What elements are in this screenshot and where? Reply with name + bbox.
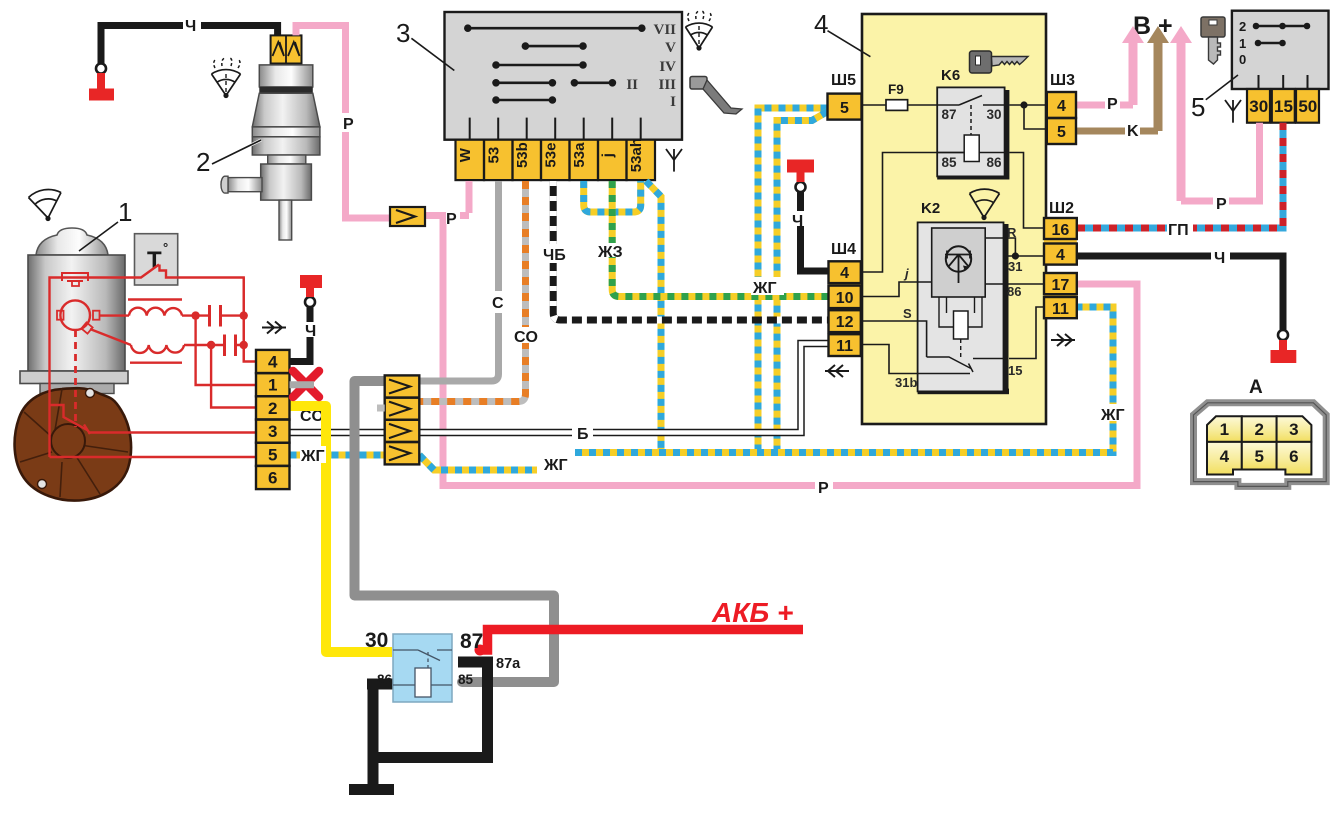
- svg-text:15: 15: [1008, 363, 1022, 378]
- wiper motor gearbox housing (brown): [15, 388, 132, 500]
- label B wire: [572, 426, 593, 439]
- svg-text:15: 15: [1274, 97, 1293, 116]
- mounting block 4 body: [862, 14, 1046, 424]
- svg-text:АКБ +: АКБ +: [711, 597, 793, 628]
- wire: K6 30 to Sh3 pins with junction: [1009, 105, 1047, 129]
- svg-text:2: 2: [196, 147, 210, 177]
- wiper motor 1 dome: [36, 228, 108, 255]
- wire: tap to motor pin 2: [211, 345, 256, 408]
- pump taper: [252, 93, 320, 127]
- label P bottom: [815, 478, 833, 493]
- svg-text:III: III: [658, 77, 676, 93]
- svg-text:5: 5: [840, 100, 849, 117]
- label 4 leader: [814, 9, 870, 57]
- wire: to motor pin 5: [50, 456, 257, 458]
- gearbox screws: [86, 389, 95, 398]
- wire ZhB black-white: 53e to Sh4 pin12: [553, 181, 828, 320]
- pink B+ arrow from ignition 30: [1177, 41, 1186, 201]
- key icon near K6: [970, 51, 1029, 73]
- thermal breaker T box: [135, 234, 178, 285]
- Sh3 connector pins 4 5: [1047, 72, 1076, 144]
- wire brown K: Sh3 pin5 to B+: [1077, 128, 1158, 135]
- svg-text:30: 30: [365, 629, 388, 652]
- svg-text:3: 3: [268, 422, 277, 441]
- svg-text:ГП: ГП: [1168, 222, 1189, 239]
- svg-text:S: S: [903, 306, 912, 321]
- svg-text:87: 87: [460, 630, 483, 653]
- capacitor C2: [225, 335, 236, 357]
- capacitor C1: [210, 305, 221, 327]
- relay body: [393, 634, 452, 702]
- bottom choke coil: [131, 345, 184, 353]
- wire CO gray-orange: switch 53b to junction: [419, 181, 525, 402]
- K6 contacts: [937, 96, 1004, 139]
- dashed armature shaft to gear switch: [74, 330, 77, 427]
- svg-text:50: 50: [1298, 97, 1317, 116]
- label C switch53: [491, 291, 507, 313]
- label CO 53b: [514, 327, 538, 343]
- svg-text:ЖГ: ЖГ: [1100, 407, 1125, 424]
- svg-text:10: 10: [836, 290, 854, 307]
- label Ch Sh4: [790, 211, 807, 226]
- svg-text:j: j: [599, 153, 616, 158]
- label Ch pump: [183, 17, 201, 33]
- svg-text:86: 86: [987, 155, 1003, 170]
- svg-text:31b: 31b: [895, 375, 917, 390]
- svg-text:30: 30: [987, 107, 1002, 122]
- svg-text:W: W: [457, 147, 474, 162]
- svg-text:ЧБ: ЧБ: [543, 247, 566, 264]
- wiper icon near motor: [29, 189, 62, 221]
- bottom choke core bar: [130, 362, 182, 364]
- ignition switch 5 body: [1232, 11, 1329, 89]
- svg-text:85: 85: [942, 155, 958, 170]
- switch 3 contact row VII: [464, 24, 646, 32]
- label 1 leader: [79, 197, 132, 251]
- wire: top choke to cap C1: [182, 314, 244, 316]
- svg-text:3: 3: [1289, 420, 1298, 439]
- wire pink: Sh3 pin4 to B+: [1077, 102, 1133, 109]
- wire: lower brush to bottom choke: [90, 329, 131, 345]
- svg-text:30: 30: [1249, 97, 1268, 116]
- ground symbol top left (red): [89, 64, 114, 95]
- wire ZhG: 53a to 53ah U-loop: [584, 181, 641, 212]
- svg-text:Ч: Ч: [1214, 250, 1225, 267]
- antenna symbol below 53ah: [666, 149, 682, 172]
- relay internals: [393, 650, 452, 685]
- svg-text:P: P: [446, 211, 457, 228]
- svg-text:ЖГ: ЖГ: [752, 280, 777, 297]
- svg-text:2: 2: [1254, 420, 1263, 439]
- svg-text:11: 11: [836, 338, 853, 355]
- ignition terminal ticks: [1259, 75, 1308, 89]
- pump bottom tube: [279, 200, 292, 240]
- wire: right brush to top choke: [100, 314, 130, 316]
- switch 3 contact row V: [522, 42, 587, 50]
- svg-text:4: 4: [814, 9, 828, 39]
- svg-text:Ч: Ч: [792, 213, 803, 230]
- brush bracket: [62, 273, 88, 281]
- svg-text:4: 4: [268, 353, 278, 372]
- svg-text:IV: IV: [659, 59, 676, 75]
- svg-text:Ч: Ч: [185, 18, 196, 35]
- switch 3 contact row II-III: [492, 79, 616, 87]
- Sh5 connector pin 5: [828, 72, 862, 120]
- arrow symbol near motor pin4: [262, 322, 286, 334]
- svg-text:11: 11: [1052, 301, 1069, 318]
- motor pin column 4 1 2 3 5 6: [256, 350, 290, 489]
- svg-text:CO: CO: [514, 329, 538, 346]
- svg-text:I: I: [670, 94, 676, 110]
- wire ZhG: Sh5 pin5 vertical B: [777, 112, 828, 453]
- arrow symbol below Sh4: [825, 365, 849, 377]
- ground symbol Sh4 pin4 (red): [787, 166, 814, 192]
- svg-text:86: 86: [377, 672, 393, 687]
- relay K2 box: [895, 200, 1022, 394]
- top choke coil: [129, 308, 182, 316]
- wire: Sh4 pin12 to K2 S blade: [861, 321, 927, 357]
- svg-text:12: 12: [836, 314, 854, 331]
- label P ignition: [1213, 194, 1229, 209]
- label ZhG twin verticals: [751, 277, 784, 295]
- gearbox gear circle: [51, 424, 85, 458]
- junction block 4-cells: [385, 375, 420, 464]
- K2 switch blade: [927, 357, 1004, 372]
- ignition key icon: [1201, 17, 1225, 64]
- motor armature circle: [60, 300, 90, 330]
- Sh2 connector pins 16 4 17 11: [1044, 200, 1077, 318]
- label ZhG motor pin5: [300, 446, 326, 463]
- label GP: [1167, 220, 1193, 236]
- B+ arrows: [1122, 12, 1192, 201]
- wire: K6 85 to Sh4 pin4: [861, 153, 964, 273]
- wire pink: long bottom run to Sh2 pin17: [443, 212, 1137, 486]
- svg-text:ЖГ: ЖГ: [543, 457, 568, 474]
- wire black: motor pin4 to ground: [290, 307, 311, 362]
- washer pump 2: [221, 35, 320, 240]
- ignition contact rows: [1253, 23, 1311, 47]
- wire: thermal contact inside T box: [135, 265, 178, 278]
- pump body: [252, 137, 320, 155]
- svg-text:Б: Б: [577, 426, 589, 443]
- svg-text:2: 2: [268, 399, 277, 418]
- svg-text:1: 1: [1220, 420, 1229, 439]
- switch 3 contact row I: [492, 96, 556, 104]
- wire: K2 R and 31 to Sh2 pin4: [985, 238, 1046, 256]
- switch 3 roman numerals: [626, 22, 676, 110]
- red X mark at motor pin1: [293, 371, 319, 397]
- svg-text:16: 16: [1052, 222, 1070, 239]
- wire red AKB: relay 87 to battery: [475, 645, 486, 656]
- svg-text:4: 4: [1220, 447, 1230, 466]
- relay K6 box: [937, 67, 1009, 180]
- pump top cap: [259, 65, 313, 87]
- wire: Sh4 pin10 to K2 j: [861, 282, 932, 297]
- svg-text:A: A: [1249, 377, 1263, 398]
- label ChB: [542, 244, 570, 263]
- pump connector: [271, 35, 302, 63]
- label P Sh3: [1105, 94, 1120, 109]
- svg-text:87a: 87a: [496, 656, 521, 672]
- label ZhZ: [598, 243, 625, 257]
- pump band: [252, 127, 320, 137]
- svg-text:K2: K2: [921, 200, 940, 217]
- svg-text:Ш5: Ш5: [831, 72, 856, 89]
- top choke core bar: [128, 298, 182, 300]
- label 3 leader: [396, 18, 454, 71]
- wiper icon above K2: [970, 189, 1000, 220]
- svg-text:P: P: [1216, 196, 1227, 213]
- ignition antenna symbol: [1225, 100, 1241, 123]
- stalk lever icon: [690, 77, 742, 115]
- wire gray C: switch 53 to junction: [419, 181, 498, 381]
- K2 internal labels: [895, 225, 1022, 390]
- wire ZhZ yellow-green: j to Sh4 pin10: [612, 181, 828, 297]
- svg-text:2: 2: [1239, 19, 1246, 34]
- svg-text:53ah: 53ah: [628, 138, 645, 172]
- fuse F9: [858, 82, 938, 110]
- svg-text:5: 5: [1191, 92, 1205, 122]
- washer icon near pump: [212, 58, 241, 98]
- svg-text:17: 17: [1052, 277, 1070, 294]
- wiper motor 1 cylinder body: [28, 255, 125, 371]
- wire B white: motor pin3 to Sh4 pin11: [290, 344, 829, 433]
- svg-text:6: 6: [268, 469, 277, 488]
- wiper switch 3 body: [445, 12, 683, 140]
- wire: park switch to motor pin 3: [88, 431, 256, 433]
- svg-text:ЖЗ: ЖЗ: [597, 244, 623, 261]
- wire yellow: motor pin2 to relay 30: [290, 406, 393, 652]
- wire ZhG: long bottom run to Sh2 pin11: [419, 307, 1113, 470]
- svg-text:1: 1: [118, 197, 132, 227]
- svg-text:53: 53: [485, 147, 502, 164]
- wiper motor 1 base flange: [20, 371, 128, 384]
- K6 coil: [964, 135, 979, 162]
- motor internal red circuit: [50, 265, 257, 458]
- wire: T box to vertical bus: [178, 278, 256, 362]
- svg-text:4: 4: [1057, 98, 1066, 115]
- wire black: Sh4 pin4 to ground: [801, 192, 829, 271]
- wire GP blue-red: Sh2 pin16 to ignition 15: [1077, 123, 1283, 228]
- K2 coil housing: [939, 297, 982, 327]
- svg-text:°: °: [163, 240, 168, 255]
- svg-text:87: 87: [942, 107, 957, 122]
- pump side nozzle: [228, 178, 262, 192]
- gray stub junction cell2: [377, 405, 385, 412]
- svg-text:85: 85: [458, 672, 474, 687]
- svg-text:Ш2: Ш2: [1049, 200, 1074, 217]
- washer+wiper icon near switch: [686, 11, 713, 51]
- svg-text:4: 4: [1056, 247, 1065, 264]
- svg-text:P: P: [818, 480, 829, 497]
- wire: K2 86 to Sh2 pin17: [985, 283, 1046, 285]
- wire: thermal line left and vertical down into gearbox: [50, 278, 135, 458]
- brushes: [57, 311, 64, 320]
- svg-text:86: 86: [1007, 284, 1021, 299]
- svg-text:6: 6: [1289, 447, 1298, 466]
- label ZhG mid bottom: [542, 455, 572, 472]
- svg-text:P: P: [343, 116, 354, 133]
- wire: K2 15 to Sh2 pin11: [1009, 307, 1046, 359]
- pink B+ arrow from Sh3 pin4: [1129, 41, 1138, 105]
- svg-text:5: 5: [268, 445, 277, 464]
- svg-text:5: 5: [1254, 447, 1263, 466]
- wire: vertical bus down from T line: [242, 278, 244, 362]
- svg-text:0: 0: [1239, 52, 1246, 67]
- wire: Sh4 pin11 to K2 31b: [861, 345, 970, 374]
- svg-text:1: 1: [1239, 36, 1246, 51]
- svg-text:C: C: [492, 295, 504, 312]
- arrow symbol right of Sh2: [1051, 334, 1075, 346]
- svg-text:31: 31: [1008, 259, 1022, 274]
- gray stub at pin1: [290, 381, 315, 388]
- wire ZhG: 53ah down long vertical: [646, 181, 661, 453]
- switch 3 terminals W 53 53b 53e 53a j 53ah: [456, 138, 656, 180]
- wire black: relay 87a and 86 to ground: [373, 662, 488, 758]
- svg-text:Ш3: Ш3: [1050, 72, 1075, 89]
- label 2 leader: [196, 140, 261, 177]
- svg-text:5: 5: [1057, 124, 1066, 141]
- label P pump: [340, 113, 353, 132]
- wire ZhG: motor pin5 to junction: [290, 452, 385, 459]
- label 5 leader: [1191, 75, 1238, 122]
- wire ZhG: Sh5 pin5 vertical A: [758, 108, 828, 453]
- wire black: pump ground: [101, 26, 278, 65]
- svg-text:Ч: Ч: [305, 323, 316, 340]
- label Ch motor: [303, 322, 319, 337]
- svg-text:P: P: [1107, 96, 1118, 113]
- ground symbol motor pin4 (red): [300, 282, 322, 308]
- wire pink: ignition 30 down and to B+ arrow: [1181, 123, 1260, 201]
- wire: tap to motor pin 1: [196, 316, 256, 385]
- svg-text:53b: 53b: [514, 142, 531, 168]
- svg-text:VII: VII: [653, 22, 676, 38]
- wire: K6 86 to Sh2 pin16: [1009, 153, 1046, 229]
- inline connector on pink wire: [390, 207, 425, 226]
- ignition terminals 30 15 50: [1247, 89, 1319, 123]
- svg-text:3: 3: [396, 18, 410, 48]
- wire: bottom choke to cap C2: [184, 344, 244, 346]
- svg-text:1: 1: [268, 376, 277, 395]
- ground symbol Sh2 pin4 (red): [1271, 330, 1297, 357]
- gear park-switch jog and blade: [50, 405, 91, 434]
- Sh4 connector pins 4 10 12 11: [829, 241, 861, 356]
- wire gray thick: junction to relay 85: [355, 381, 555, 682]
- label P near W: [446, 209, 460, 224]
- svg-text:ЖГ: ЖГ: [300, 448, 325, 465]
- cells: [1207, 416, 1311, 474]
- svg-text:F9: F9: [888, 82, 904, 97]
- transistor symbol: [945, 246, 972, 283]
- brown B+ arrow from Sh3 pin5: [1154, 41, 1163, 131]
- switch 3 terminal ticks: [470, 118, 641, 140]
- label ZhG right loop: [1100, 404, 1130, 421]
- svg-text:53e: 53e: [542, 143, 559, 168]
- svg-text:K: K: [1127, 123, 1139, 140]
- label K Sh3: [1125, 121, 1140, 136]
- svg-text:K6: K6: [941, 67, 960, 84]
- red junction dots: [191, 311, 247, 349]
- svg-text:4: 4: [840, 265, 849, 282]
- label Ch Sh2: [1211, 248, 1230, 263]
- svg-text:53a: 53a: [571, 142, 588, 168]
- svg-text:Ш4: Ш4: [831, 241, 856, 258]
- switch 3 contact row IV: [492, 61, 587, 69]
- wire black: Sh2 pin4 to ground: [1077, 256, 1283, 330]
- svg-text:II: II: [626, 77, 638, 93]
- svg-text:V: V: [665, 40, 676, 56]
- K2 transistor box: [932, 228, 986, 297]
